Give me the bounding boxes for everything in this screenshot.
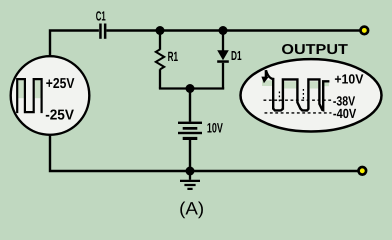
wire bottom rail: source bottom to right terminal	[50, 136, 359, 171]
svg-text:-25V: -25V	[45, 108, 74, 124]
dashed level -40V	[265, 112, 332, 114]
node D (ground junction)	[186, 167, 195, 176]
square wave green fill	[18, 80, 24, 98]
wire node A to R1	[159, 31, 161, 50]
wire R1 bottom	[159, 69, 161, 88]
output waveform trace	[266, 70, 330, 110]
dashed level -38V	[264, 99, 332, 101]
svg-text:+25V: +25V	[46, 76, 75, 92]
node A (top wire / R1)	[156, 26, 165, 35]
resistor R1	[156, 49, 164, 69]
wire top-left: source top to C1	[50, 31, 99, 57]
wire battery to bottom rail	[189, 140, 191, 171]
svg-text:-40V: -40V	[333, 106, 356, 121]
dashed vertical in second gap	[302, 89, 304, 100]
svg-text:+10V: +10V	[334, 72, 363, 87]
svg-text:C1: C1	[96, 9, 106, 24]
output terminal bottom	[359, 167, 367, 175]
waveform green fills	[262, 80, 329, 88]
wire node B to D1	[222, 31, 224, 51]
svg-text:R1: R1	[168, 49, 179, 64]
source V1 (square-wave generator)	[11, 56, 90, 135]
dashed vertical in first gap	[278, 92, 280, 104]
diode D1	[217, 50, 229, 63]
svg-text:(A): (A)	[179, 199, 204, 219]
svg-text:OUTPUT: OUTPUT	[281, 42, 348, 58]
waveform start arrow	[261, 77, 269, 84]
node B (top wire / D1)	[219, 26, 228, 35]
wire node C to battery	[189, 89, 191, 122]
wire top: C1 to right terminal	[107, 29, 361, 31]
battery BT1 10V	[178, 122, 202, 140]
node C (battery tap)	[186, 84, 195, 93]
output terminal top	[361, 27, 369, 35]
wire bottom of R1-D1	[159, 87, 224, 89]
wire D1 bottom	[222, 63, 224, 89]
svg-text:10V: 10V	[207, 121, 224, 136]
output waveform balloon	[241, 59, 382, 131]
capacitor C1	[99, 24, 106, 39]
svg-text:D1: D1	[231, 48, 242, 63]
ground	[180, 171, 200, 189]
square wave trace	[17, 79, 41, 113]
